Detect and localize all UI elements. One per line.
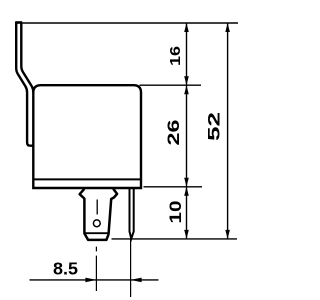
extension line pin tip bottom bbox=[112, 238, 238, 240]
arrow 52 bottom (down) bbox=[225, 230, 230, 239]
arrow 10 bottom (down) bbox=[184, 230, 189, 239]
svg-text:26: 26 bbox=[165, 120, 183, 146]
arrow 52 top (up) bbox=[225, 23, 230, 32]
narrow pin bbox=[130, 189, 134, 239]
mounting bracket left strip line bbox=[16, 22, 33, 145]
dimension line 52 bbox=[227, 23, 229, 239]
dimension line 16/26/10 bbox=[186, 23, 188, 239]
mounting bracket top edge bbox=[15, 21, 22, 23]
arrow 26 top (up) bbox=[184, 85, 189, 94]
dimension line 8.5 bbox=[30, 279, 159, 281]
extension line body top right bbox=[140, 84, 202, 86]
svg-text:52: 52 bbox=[206, 112, 224, 141]
mounting bracket right strip line bbox=[21, 22, 33, 92]
relay body outline bbox=[33, 85, 141, 188]
arrow 16 bottom (down) bbox=[184, 76, 189, 85]
body base seam line bbox=[34, 178, 140, 180]
extension line body bottom right bbox=[144, 186, 203, 188]
svg-text:10: 10 bbox=[167, 201, 185, 224]
svg-text:16: 16 bbox=[167, 46, 184, 66]
blade center mark bbox=[96, 200, 98, 215]
svg-text:8.5: 8.5 bbox=[53, 259, 78, 279]
extension line top (bracket top level) bbox=[15, 22, 238, 24]
arrow 26 bottom (down) bbox=[184, 178, 189, 187]
arrow 8.5 left (right-pointing) bbox=[85, 278, 96, 283]
arrow 10 top (up) bbox=[184, 187, 189, 196]
blade terminal outline with barbs bbox=[80, 189, 118, 240]
blade hole bbox=[93, 220, 100, 227]
arrow 8.5 right (left-pointing) bbox=[131, 278, 142, 283]
arrow 16 top (up) bbox=[184, 23, 189, 32]
center line below blade terminal bbox=[95, 247, 97, 291]
center line below narrow pin bbox=[130, 240, 132, 298]
blade chamfer line bbox=[85, 232, 109, 234]
